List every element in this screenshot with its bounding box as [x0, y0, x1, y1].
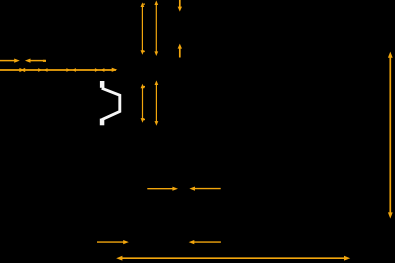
wire: bottom overall-width double arrow — [116, 256, 350, 261]
wire: lower right-pointing arrow H — [97, 240, 129, 244]
tick stub right of arrow D top head — [143, 86, 145, 88]
arrowhead pair at nodes x=68/73 — [66, 68, 76, 72]
profile top flange nub — [100, 81, 105, 88]
up arrow of small dimension pair at x=180 — [178, 44, 182, 58]
vertical dimension arrow B (outer height, top group) — [154, 0, 158, 56]
profile bottom flange nub — [100, 119, 105, 126]
arrowhead pair at nodes x=97/102 — [95, 68, 105, 72]
vertical dimension arrow E (outer height, middle group) — [155, 80, 159, 125]
wire: lower-left chained dimension line — [0, 69, 116, 71]
wire: lower left-pointing arrow I — [189, 240, 221, 244]
tick stub right of arrow A top head — [143, 3, 145, 5]
profile cross-section (white hat channel) — [100, 81, 120, 125]
wire: upper-left dimension line left segment with right arrowhead — [0, 59, 20, 63]
arrowhead pair at nodes x=40/45 — [38, 68, 47, 72]
vertical dimension arrow D (inner height, middle group) — [141, 84, 145, 123]
tick stub right of arrow A bottom head — [143, 51, 145, 52]
wire: right overall-height double arrow — [388, 52, 393, 219]
vertical dimension arrow A (inner height, top group) — [141, 2, 145, 54]
arrowhead pair at node x=22 — [19, 68, 25, 72]
wire: mid right-pointing arrow F — [147, 187, 178, 191]
wire: upper-left dimension line right segment with left arrowhead — [25, 59, 46, 63]
arrowhead at end of chained line — [112, 68, 118, 72]
tick at right end of upper-left dimension line — [43, 60, 46, 62]
tick stub right of arrow D bottom head — [143, 119, 145, 120]
wire: mid left-pointing arrow G — [189, 187, 220, 191]
down arrow of small dimension pair at x=180 — [178, 0, 182, 12]
profile web outline — [102, 88, 120, 120]
